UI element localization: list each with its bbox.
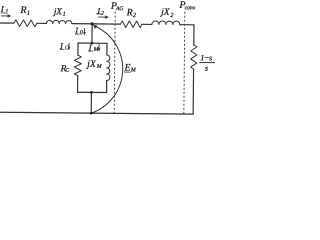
svg-text:1: 1 (63, 12, 66, 18)
svg-text:E: E (124, 62, 131, 73)
svg-text:R: R (126, 7, 133, 18)
svg-text:jX: jX (160, 8, 171, 18)
svg-text:s: s (205, 64, 208, 73)
svg-text:I: I (0, 4, 5, 14)
svg-text:R: R (19, 5, 26, 16)
svg-text:s: s (209, 53, 212, 62)
svg-text:2: 2 (101, 11, 104, 17)
svg-text:C: C (65, 68, 69, 74)
svg-text:C: C (65, 45, 69, 51)
svg-text:AG: AG (115, 6, 124, 12)
svg-text:conv: conv (185, 5, 196, 11)
svg-text:1: 1 (27, 10, 30, 17)
svg-text:0: 0 (80, 30, 83, 36)
svg-text:M: M (96, 64, 103, 70)
svg-text:M: M (130, 68, 137, 74)
svg-text:jX: jX (53, 6, 63, 16)
svg-text:2: 2 (133, 12, 137, 19)
svg-text:1: 1 (5, 9, 8, 15)
svg-text:2: 2 (170, 12, 174, 19)
svg-text:jX: jX (85, 59, 97, 70)
